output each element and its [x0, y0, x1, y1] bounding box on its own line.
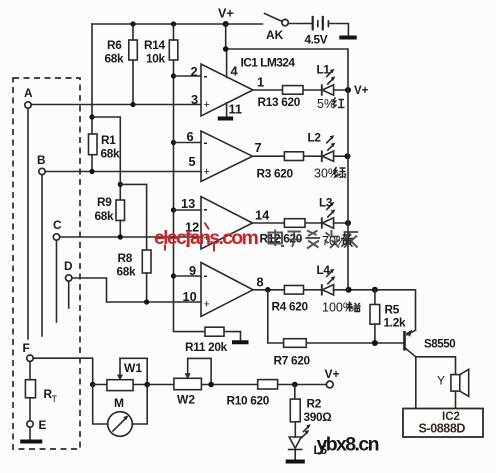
wire F row — [33, 358, 92, 384]
junction V+ drop — [223, 46, 229, 52]
svg-text:68k: 68k — [101, 147, 121, 161]
switch AK — [265, 14, 289, 43]
resistor RT — [25, 361, 57, 420]
op-amp U1A — [191, 64, 265, 116]
junction W2 right — [208, 382, 214, 388]
svg-text:5%: 5% — [317, 97, 335, 111]
wire B stub down — [41, 175, 43, 336]
svg-text:6: 6 — [187, 129, 194, 144]
svg-text:390Ω: 390Ω — [304, 410, 332, 424]
junction V+ feeder branch — [89, 114, 94, 119]
wire node A row (to op-amp pin 3) — [31, 104, 201, 106]
svg-text:R8: R8 — [118, 251, 133, 265]
node F terminal — [23, 341, 34, 361]
wire LED rail A — [347, 90, 349, 290]
svg-text:11: 11 — [229, 102, 243, 117]
resistor R6 — [105, 24, 138, 105]
label 5% red — [317, 97, 345, 111]
junction R14 top — [171, 21, 176, 26]
svg-text:Y: Y — [437, 374, 445, 388]
wire pin4 V+ — [226, 49, 228, 78]
wire V+ feeder left vertical — [91, 24, 93, 134]
wire top V+ rail — [92, 23, 263, 25]
svg-text:+: + — [204, 99, 210, 111]
wire pin2 stub — [174, 75, 202, 77]
svg-text:14: 14 — [255, 208, 270, 223]
svg-text:V+: V+ — [325, 367, 340, 381]
op-amp U1B — [187, 129, 262, 182]
svg-text:13: 13 — [181, 196, 195, 211]
wire reference rail (R14 to R11) — [174, 76, 241, 332]
junction L2 rail — [345, 153, 351, 159]
junction R1 bottom node B — [89, 169, 94, 174]
LED L3 — [319, 196, 335, 229]
op-amp U1C — [181, 196, 270, 249]
wire V+ distribution — [226, 24, 348, 90]
svg-text:R13 620: R13 620 — [258, 95, 301, 109]
label 70% yellow — [322, 233, 353, 248]
svg-text:C: C — [53, 218, 62, 232]
wire node B row (to op-amp pin 5) — [45, 171, 201, 173]
LED L1 — [317, 63, 336, 96]
resistor R3 — [257, 152, 304, 181]
svg-text:5: 5 — [189, 154, 196, 169]
svg-text:V+: V+ — [354, 85, 369, 97]
node E terminal — [27, 418, 47, 432]
svg-text:W1: W1 — [124, 361, 142, 375]
wire collector to speaker — [416, 357, 456, 375]
wire node D row (to op-amp pin 10) — [72, 278, 201, 302]
resistor R10 — [227, 380, 278, 408]
wire speaker to IC2 — [455, 391, 457, 408]
battery 4.5V — [288, 16, 328, 47]
svg-text:+: + — [204, 166, 210, 178]
potentiometer W1 — [107, 358, 147, 390]
junction base node — [372, 340, 378, 346]
svg-text:R6: R6 — [107, 38, 122, 52]
resistor R2 — [290, 385, 331, 438]
svg-text:4.5V: 4.5V — [305, 33, 328, 47]
junction W1 right — [144, 382, 150, 388]
resistor R8 — [117, 250, 152, 302]
svg-text:3: 3 — [191, 92, 198, 107]
svg-text:R9: R9 — [97, 195, 112, 209]
junction R2 tap — [292, 382, 298, 388]
svg-text:68k: 68k — [95, 209, 115, 223]
svg-text:+: + — [204, 299, 210, 311]
resistor R11 — [185, 327, 228, 354]
svg-text:R7 620: R7 620 — [274, 354, 311, 368]
svg-text:R2: R2 — [307, 397, 322, 411]
junction R8 bottom node D — [144, 299, 149, 304]
svg-text:L3: L3 — [319, 196, 333, 210]
svg-text:L2: L2 — [308, 131, 322, 145]
wire output 8 row — [253, 290, 416, 330]
ground at L5 — [286, 460, 305, 464]
junction L1 V+ node — [345, 87, 351, 93]
resistor R12 — [260, 219, 306, 246]
junction L4 rail B — [372, 287, 378, 293]
svg-text:W2: W2 — [177, 393, 195, 407]
wire pin13 stub — [174, 209, 202, 211]
svg-text:R1: R1 — [101, 133, 116, 147]
ground at E — [20, 427, 42, 441]
wire pin9 stub — [174, 275, 202, 277]
meter M — [93, 385, 148, 437]
svg-text:-: - — [204, 269, 208, 283]
wire output 14 row — [253, 222, 349, 224]
junction R9 bottom node C — [118, 234, 123, 239]
ground at pin11 — [218, 102, 242, 119]
wire collector to IC2 — [415, 357, 417, 409]
junction L3 rail — [345, 220, 351, 226]
junction R6 bottom node A — [130, 102, 135, 107]
svg-text:R10 620: R10 620 — [227, 394, 270, 408]
svg-text:R4 620: R4 620 — [272, 300, 309, 314]
svg-text:S8550: S8550 — [424, 339, 455, 351]
node A terminal — [24, 86, 33, 108]
svg-text:R3 620: R3 620 — [257, 167, 294, 181]
svg-text:-: - — [204, 69, 208, 83]
terminal V+ output — [325, 367, 340, 388]
svg-text:T: T — [52, 394, 58, 404]
LED L5 — [289, 424, 328, 459]
svg-text:ybx8.cn: ybx8.cn — [317, 434, 379, 456]
resistor R9 — [95, 195, 125, 237]
svg-text:F: F — [23, 341, 30, 355]
svg-text:M: M — [114, 396, 124, 410]
junction V+ node — [223, 21, 229, 27]
svg-text:4: 4 — [231, 64, 239, 79]
svg-text:AK: AK — [266, 28, 284, 42]
wire A stub down — [27, 108, 29, 339]
potentiometer W2 — [174, 358, 211, 406]
svg-text:2: 2 — [191, 64, 198, 79]
wire output 1 row — [253, 89, 348, 91]
battery pack dashed enclosure — [13, 78, 80, 449]
svg-text:V+: V+ — [218, 7, 234, 21]
svg-text:1.2k: 1.2k — [384, 316, 406, 330]
node C terminal — [53, 218, 62, 240]
svg-text:1: 1 — [257, 75, 264, 90]
svg-text:R11 20k: R11 20k — [185, 340, 228, 354]
svg-text:-: - — [204, 136, 208, 150]
wire pin6 stub — [174, 142, 202, 144]
svg-text:7: 7 — [255, 140, 262, 155]
svg-text:-: - — [204, 202, 208, 216]
LED L2 — [308, 131, 336, 162]
svg-text:68k: 68k — [117, 265, 137, 279]
ground battery negative — [328, 24, 356, 38]
node D terminal — [64, 259, 73, 281]
svg-text:10k: 10k — [146, 52, 166, 66]
svg-text:9: 9 — [189, 263, 196, 278]
svg-text:B: B — [37, 153, 45, 167]
svg-text:elecfans.com: elecfans.com — [154, 227, 259, 249]
junction pin6 ref — [171, 140, 176, 145]
wire C stub down — [56, 240, 58, 322]
resistor R5 — [370, 290, 406, 343]
junction R9 branch — [118, 182, 123, 187]
watermark chinese characters — [269, 230, 359, 249]
svg-text:L4: L4 — [317, 263, 331, 277]
svg-text:IC1 LM324: IC1 LM324 — [241, 56, 296, 70]
junction pin9 ref — [171, 273, 176, 278]
wire branch to R8 — [120, 184, 146, 250]
wire node C row (to op-amp pin 12) — [60, 236, 201, 238]
wire branch to R9 — [92, 117, 120, 200]
wire D stub down — [68, 281, 70, 308]
op-amp U1D — [183, 263, 264, 317]
resistor R7 — [274, 339, 311, 368]
watermark elecfans.com — [154, 223, 259, 252]
svg-text:L1: L1 — [317, 63, 331, 77]
resistor R14 — [144, 24, 178, 76]
svg-text:A: A — [24, 86, 33, 100]
junction pin8 node — [265, 287, 271, 293]
junction R6 top — [130, 21, 135, 26]
svg-text:E: E — [39, 418, 47, 432]
speaker Y — [437, 369, 469, 396]
junction F drop — [90, 382, 96, 388]
svg-text:S-0888D: S-0888D — [419, 422, 466, 436]
IC2 S-0888D music chip — [403, 409, 483, 438]
wire meter row — [93, 384, 327, 386]
wire output 7 row — [253, 155, 348, 157]
svg-text:D: D — [64, 259, 73, 273]
node B terminal — [37, 153, 45, 175]
resistor R1 — [89, 133, 121, 172]
junction pin2 ref — [171, 73, 176, 78]
label 100% orange — [322, 301, 361, 315]
svg-text:68k: 68k — [105, 52, 125, 66]
transistor Q1 S8550 — [405, 330, 456, 357]
junction L4 rail A — [346, 287, 352, 293]
resistor R13 — [258, 86, 304, 109]
svg-text:R5: R5 — [385, 303, 400, 317]
svg-text:8: 8 — [257, 275, 264, 290]
label 30% green — [314, 167, 346, 181]
LED L4 — [317, 263, 336, 296]
resistor R4 — [272, 286, 309, 314]
ground at R11 — [232, 332, 249, 343]
wire R7 row (base drive) — [268, 290, 404, 343]
svg-text:10: 10 — [183, 289, 197, 304]
svg-text:R14: R14 — [144, 38, 165, 52]
junction pin13 ref — [171, 207, 176, 212]
